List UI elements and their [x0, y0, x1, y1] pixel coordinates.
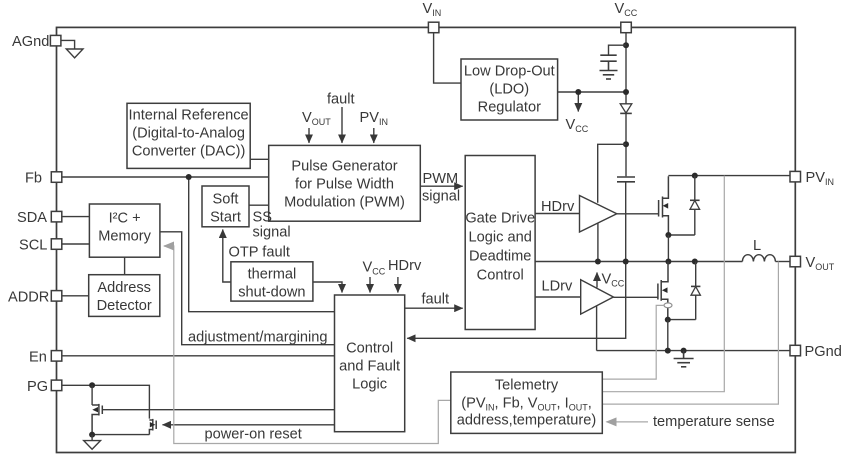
node Q1 source junction [665, 232, 671, 238]
op-amp HDrv driver triangle [580, 196, 617, 233]
svg-text:Pulse Generator: Pulse Generator [291, 158, 397, 174]
svg-text:Logic: Logic [352, 377, 387, 393]
ground symbol PGnd (earth) [674, 351, 694, 367]
svg-text:Memory: Memory [98, 229, 151, 245]
svg-text:VOUT: VOUT [806, 255, 835, 272]
svg-text:I²C +: I²C + [109, 211, 141, 227]
diode SD2 across low FET [691, 262, 700, 320]
wire LDrv Vcc supply arrow [596, 273, 598, 288]
node PGnd ground tap [681, 348, 687, 354]
svg-text:PVIN: PVIN [360, 110, 388, 127]
wire SW feedback to Control (left arrow) [407, 262, 626, 339]
svg-text:VCC: VCC [363, 260, 386, 277]
wire SS signal Soft Start to PWM [249, 204, 269, 206]
svg-text:VCC: VCC [566, 117, 589, 134]
transistor Q2 low-side FET [658, 262, 668, 320]
node SW diode junction [692, 259, 698, 265]
wire En to Control [62, 355, 335, 357]
svg-text:Detector: Detector [97, 298, 152, 314]
node PG junction [89, 382, 95, 388]
svg-text:ADDR: ADDR [8, 289, 49, 305]
svg-text:Internal Reference: Internal Reference [129, 108, 249, 124]
inductor L [742, 255, 775, 262]
svg-text:L: L [753, 238, 761, 254]
svg-text:(Digital-to-Analog: (Digital-to-Analog [132, 126, 245, 142]
svg-text:VCC: VCC [615, 1, 638, 18]
pin SCL [51, 239, 62, 250]
transistor Q1 body arrow [663, 203, 669, 209]
svg-text:Fb: Fb [25, 171, 42, 187]
block I2C + Memory [89, 204, 159, 257]
wire Q4 source to ground join [92, 434, 149, 436]
svg-text:Deadtime: Deadtime [469, 249, 531, 265]
wire Fb line to PWM [62, 176, 269, 178]
svg-text:temperature sense: temperature sense [653, 414, 775, 430]
svg-text:Control: Control [477, 268, 524, 284]
svg-text:Address: Address [97, 280, 151, 296]
wire HDrv arrow into Control top [397, 277, 399, 293]
wire Q2 source to diode SD2 anode [668, 319, 696, 321]
block thermal shut-down [231, 262, 313, 301]
wire LDO output to Vcc rail [558, 91, 626, 93]
node Vcc cap tap [623, 42, 629, 48]
wire AGnd to ground [62, 40, 75, 49]
wire Iout sense (gray) [602, 305, 664, 379]
svg-text:Regulator: Regulator [478, 100, 541, 116]
wire Q3 gate to Control [102, 409, 334, 411]
block Control and Fault Logic [335, 295, 405, 432]
svg-text:En: En [29, 349, 47, 365]
node SW HDrv return [595, 259, 601, 265]
transistor Q4 right PG FET [149, 419, 156, 435]
svg-text:PGnd: PGnd [805, 344, 842, 360]
diode SD1 across high FET [690, 176, 700, 235]
node LDO output tap [575, 89, 581, 95]
pin V_OUT [790, 256, 801, 267]
svg-text:PVIN: PVIN [806, 170, 834, 187]
wire Vout sense (gray) [602, 262, 778, 405]
node Q2 source junction [665, 317, 671, 323]
svg-text:SS: SS [253, 210, 273, 226]
wire fault Control to Gate Drive [405, 307, 463, 309]
wire LDrv from Gate Drive [535, 296, 581, 298]
wire LDrv driver return to PGnd [596, 306, 598, 351]
wire temperature sense into Telemetry (gray) [607, 421, 649, 423]
svg-text:signal: signal [253, 225, 291, 241]
svg-text:VCC: VCC [602, 272, 625, 289]
pin SDA [51, 211, 62, 222]
svg-text:(LDO): (LDO) [489, 82, 529, 98]
block Internal Reference (DAC) [127, 103, 250, 168]
svg-text:PG: PG [27, 379, 48, 395]
pin AGnd [50, 35, 61, 46]
block Address Detector [89, 275, 160, 317]
pin V_IN [428, 22, 439, 33]
wire OTP fault thermal to Soft Start [223, 230, 231, 283]
svg-text:Control: Control [346, 341, 393, 357]
ground symbol AGnd (open triangle) [66, 49, 83, 58]
node PG ground junction [89, 432, 95, 438]
wire diode to bootstrap cap [625, 113, 627, 176]
wire Internal Reference to PWM [250, 158, 269, 160]
wire Q1 source to diode anode [668, 234, 694, 236]
node Vcc LDO join [623, 89, 629, 95]
wire PVin arrow into PWM top [373, 128, 375, 143]
wire SDA [62, 216, 90, 218]
svg-text:address,temperature): address,temperature) [457, 413, 597, 429]
wire PVin sense (gray) [602, 176, 724, 392]
wire HDrv driver output to high FET gate [617, 213, 659, 215]
svg-text:Logic and: Logic and [469, 230, 532, 246]
pin PGnd [790, 345, 801, 356]
svg-text:power-on reset: power-on reset [205, 427, 302, 443]
wire PG down to Q3 [91, 385, 93, 405]
svg-text:fault: fault [422, 292, 450, 308]
wire HDrv driver return to SW [597, 223, 599, 262]
svg-text:LDrv: LDrv [542, 279, 574, 295]
node bootstrap supply tap [623, 141, 629, 147]
diode D1 Vcc to bootstrap [620, 104, 632, 114]
wire LDrv output to low FET gate [613, 296, 658, 298]
op-amp LDrv driver triangle [581, 280, 614, 314]
svg-text:HDrv: HDrv [388, 258, 422, 274]
svg-text:HDrv: HDrv [541, 199, 575, 215]
transistor Q2 body arrow [662, 287, 668, 293]
wire thermal shut-down to Control [313, 282, 342, 293]
svg-text:thermal: thermal [248, 267, 297, 283]
block Telemetry [451, 372, 603, 433]
pin V_CC [621, 22, 632, 33]
wire Vcc pin down [625, 32, 627, 103]
block Soft Start [202, 186, 249, 227]
wire Control to Q4 gate (power-on reset) [163, 424, 335, 426]
pin ADDR [51, 291, 62, 302]
wire V_IN pin down to LDO [434, 32, 461, 83]
svg-text:PWM: PWM [423, 171, 459, 187]
node Fb junction [186, 174, 192, 180]
wire Q2 source down to PGnd rail [667, 320, 669, 351]
wire PGnd rail [597, 350, 791, 352]
wire bootstrap supply to HDrv driver [598, 144, 626, 203]
wire SW rail [535, 261, 742, 263]
ground symbol PG (open triangle) [84, 435, 101, 450]
wire PG pin to FET drains [62, 385, 150, 418]
svg-text:and Fault: and Fault [339, 359, 400, 375]
wire inductor to Vout pin [775, 261, 790, 263]
transistor Q3 left PG FET [92, 404, 102, 435]
wire SCL [62, 243, 90, 245]
wire fault arrow into PWM top [341, 107, 343, 143]
node diode SD1 cathode on PVin rail [692, 173, 698, 179]
svg-text:signal: signal [422, 189, 460, 205]
svg-text:for Pulse Width: for Pulse Width [295, 176, 394, 192]
wire Memory to Address Detector [124, 257, 126, 275]
node PGnd Q2 [665, 348, 671, 354]
svg-text:Converter (DAC)): Converter (DAC)) [132, 144, 246, 160]
block Low Drop-Out (LDO) Regulator [461, 59, 558, 120]
transistor Q4 body arrow [150, 422, 156, 427]
wire PWM signal to Gate Drive [420, 185, 462, 187]
wire to bypass cap [609, 45, 627, 54]
svg-text:SCL: SCL [19, 238, 47, 254]
pin PV_IN [790, 171, 801, 182]
pin En [51, 351, 62, 362]
wire adjustment/margining from Memory to Control [160, 232, 335, 345]
wire PVin rail [668, 175, 790, 177]
ground symbol bypass cap (earth) [600, 71, 618, 80]
wire Vcc arrow into Control top [369, 277, 371, 293]
wire bootstrap cap bottom to SW [625, 182, 627, 262]
block Gate Drive Logic and Deadtime Control [465, 156, 535, 330]
wire ADDR [62, 295, 89, 297]
svg-text:adjustment/margining: adjustment/margining [188, 330, 328, 346]
wire Fb branch down to Control [189, 177, 335, 312]
wire Vcc tap arrow down [577, 92, 579, 112]
wire Vout arrow into PWM top [308, 128, 310, 143]
svg-text:Gate Drive: Gate Drive [465, 211, 535, 227]
svg-text:VIN: VIN [423, 1, 442, 18]
svg-text:shut-down: shut-down [238, 285, 305, 301]
pin Fb [51, 172, 62, 183]
svg-text:AGnd: AGnd [12, 34, 49, 50]
current sense element on Q2 source [664, 303, 672, 308]
node SW FET midpoint [665, 259, 671, 265]
svg-text:Modulation (PWM): Modulation (PWM) [284, 194, 405, 210]
svg-text:SDA: SDA [17, 210, 47, 226]
svg-text:Telemetry: Telemetry [495, 378, 559, 394]
pin PG [51, 380, 62, 391]
capacitor Vcc bypass [600, 55, 616, 70]
block Pulse Generator (PWM) [269, 145, 421, 221]
svg-text:Low Drop-Out: Low Drop-Out [464, 64, 555, 80]
transistor Q1 high-side FET [659, 176, 669, 235]
transistor Q3 body arrow [92, 407, 98, 412]
svg-text:VOUT: VOUT [302, 110, 331, 127]
svg-text:Start: Start [210, 210, 241, 226]
wire Q1 source down to SW [667, 235, 669, 262]
svg-text:OTP fault: OTP fault [229, 245, 290, 261]
svg-text:Soft: Soft [213, 192, 239, 208]
node SW bootstrap [623, 259, 629, 265]
wire HDrv from Gate Drive [535, 213, 579, 215]
svg-text:fault: fault [327, 92, 355, 108]
wire telemetry data to Memory (gray) [164, 246, 451, 444]
capacitor bootstrap [617, 177, 635, 182]
